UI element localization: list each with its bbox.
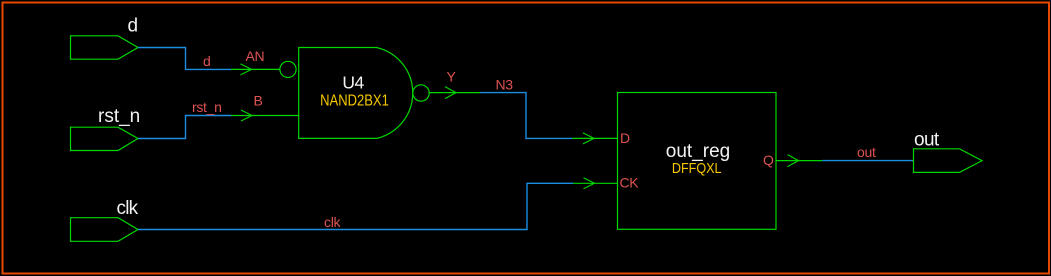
wire net rst_n (blue) <box>138 116 231 139</box>
pin stub Q (green) <box>776 160 822 162</box>
svg-text:out: out <box>914 130 940 151</box>
input port rst_n <box>71 127 139 150</box>
svg-text:NAND2BX1: NAND2BX1 <box>320 93 389 110</box>
input port clk <box>71 218 139 242</box>
wire net out (blue) <box>822 160 913 162</box>
arrow on D <box>583 133 594 144</box>
NAND gate U4 body <box>299 48 413 139</box>
svg-text:U4: U4 <box>342 73 364 93</box>
DFF out_reg box <box>618 93 777 230</box>
svg-text:Q: Q <box>763 152 774 168</box>
arrow on Y <box>445 87 456 99</box>
pin stub D (green) <box>572 137 618 139</box>
svg-text:AN: AN <box>246 48 265 64</box>
wire net clk (blue) <box>138 183 573 229</box>
input bubble (AN) <box>280 61 296 77</box>
wire net N3 (blue) <box>480 93 572 139</box>
svg-text:CK: CK <box>620 175 640 191</box>
svg-text:rst_n: rst_n <box>98 106 140 127</box>
svg-text:N3: N3 <box>496 77 514 93</box>
pin stub CK (green) <box>573 182 618 184</box>
svg-text:B: B <box>254 93 263 109</box>
output port out <box>914 149 983 173</box>
svg-text:D: D <box>620 130 630 146</box>
wire net d (blue) <box>138 48 231 70</box>
svg-text:out: out <box>857 144 876 160</box>
output pin stub Y (green) <box>429 92 480 94</box>
svg-text:DFFQXL: DFFQXL <box>672 159 722 176</box>
arrow on Q <box>788 155 799 167</box>
svg-text:d: d <box>203 53 211 69</box>
svg-text:rst_n: rst_n <box>192 99 222 115</box>
pin stub B (green) <box>231 115 299 117</box>
input port d <box>71 36 139 59</box>
svg-text:clk: clk <box>117 198 139 219</box>
arrow on CK <box>584 178 595 189</box>
svg-text:clk: clk <box>324 214 342 230</box>
pin stub AN (green) <box>231 68 280 70</box>
arrow on AN <box>241 64 252 75</box>
arrow on B <box>241 110 252 121</box>
svg-text:Y: Y <box>447 69 457 85</box>
svg-text:d: d <box>128 16 139 37</box>
output bubble <box>413 85 429 101</box>
